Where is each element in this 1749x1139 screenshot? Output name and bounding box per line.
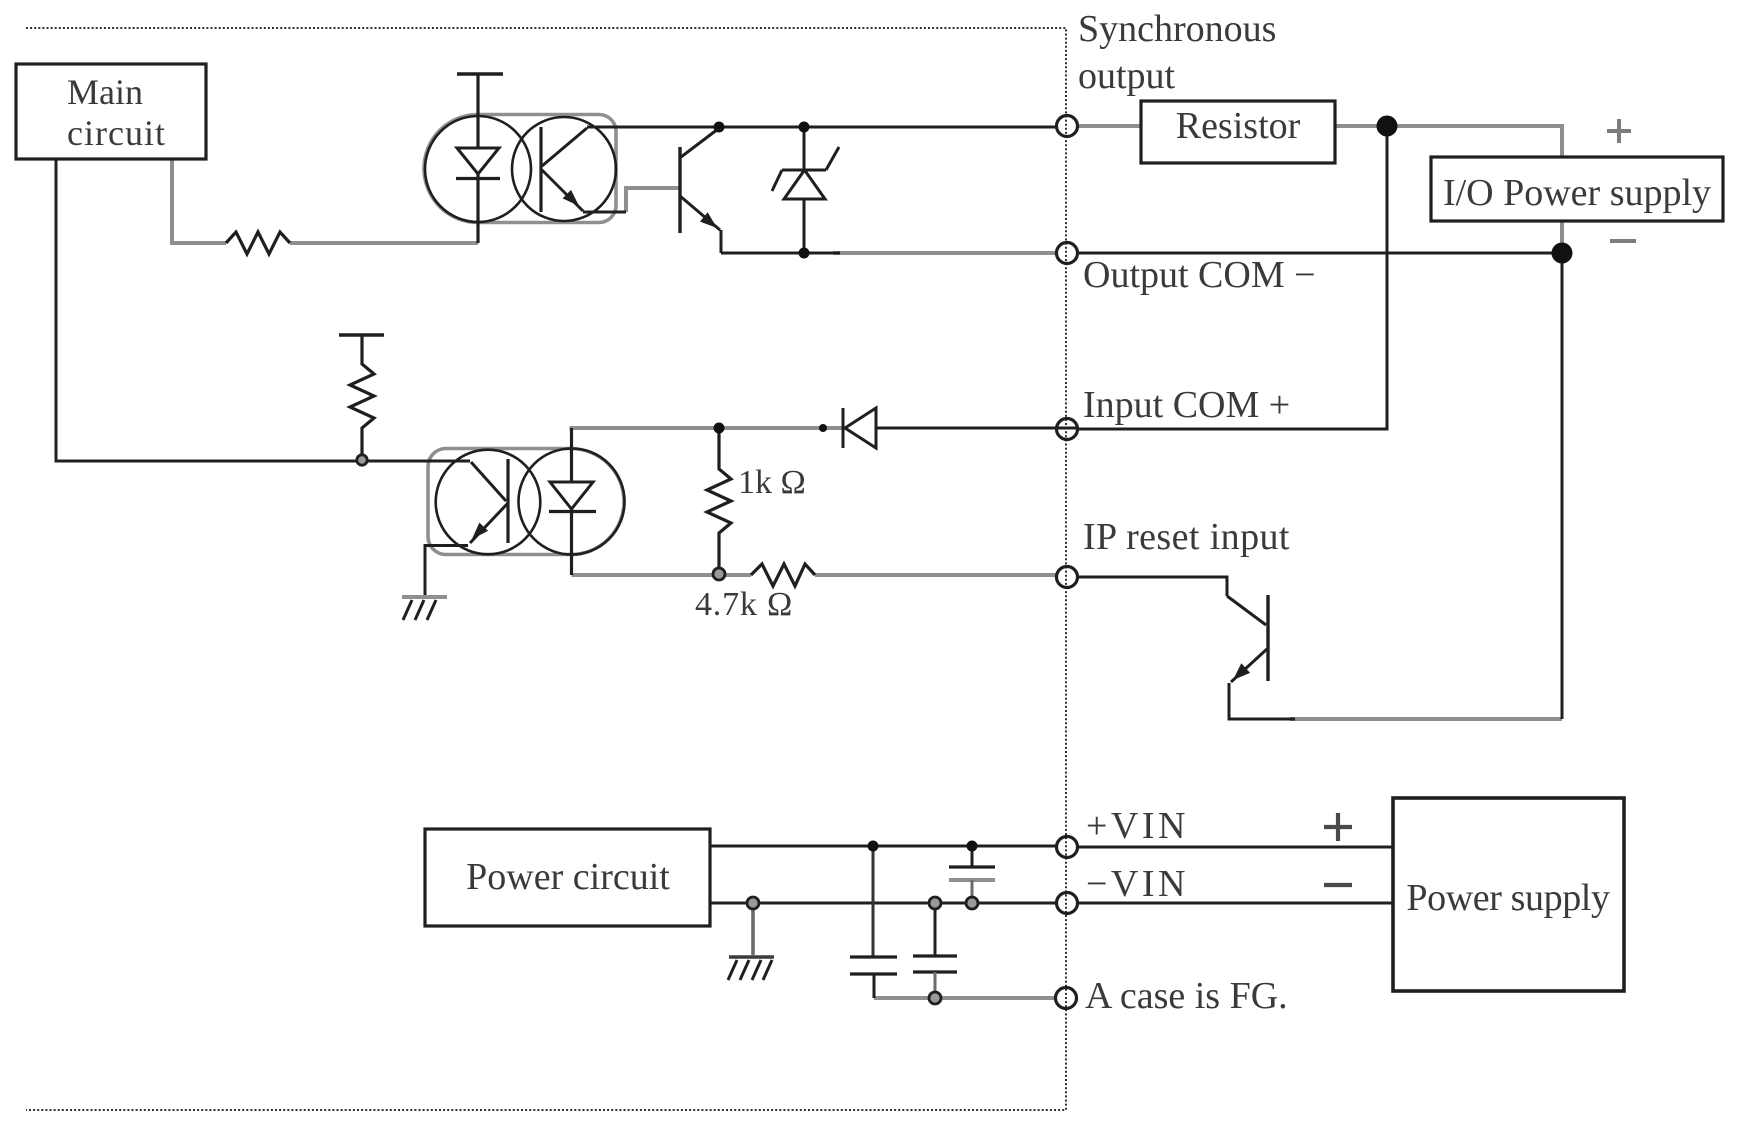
svg-text:I/O Power supply: I/O Power supply bbox=[1443, 172, 1711, 214]
svg-text:Power supply: Power supply bbox=[1406, 877, 1610, 919]
svg-text:Power circuit: Power circuit bbox=[466, 856, 670, 898]
svg-text:Synchronous: Synchronous bbox=[1078, 8, 1276, 50]
svg-text:1k Ω: 1k Ω bbox=[738, 464, 806, 501]
svg-text:IP reset input: IP reset input bbox=[1083, 516, 1290, 558]
svg-text:+VIN: +VIN bbox=[1086, 805, 1189, 847]
svg-text:output: output bbox=[1078, 55, 1176, 97]
svg-text:−VIN: −VIN bbox=[1086, 863, 1189, 905]
svg-text:Resistor: Resistor bbox=[1176, 105, 1301, 147]
svg-text:A case is FG.: A case is FG. bbox=[1085, 975, 1288, 1017]
svg-text:Input COM +: Input COM + bbox=[1083, 384, 1290, 426]
svg-text:Output COM −: Output COM − bbox=[1083, 254, 1316, 296]
svg-text:circuit: circuit bbox=[67, 113, 166, 153]
svg-text:Main: Main bbox=[67, 72, 143, 112]
svg-text:4.7k Ω: 4.7k Ω bbox=[695, 586, 793, 623]
